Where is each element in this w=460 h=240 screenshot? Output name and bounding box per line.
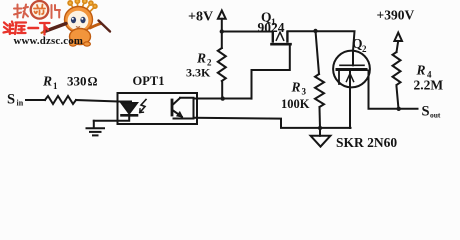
node rail/R3 (313, 29, 317, 33)
wire emitter bus (194, 118, 351, 128)
svg-text:out: out (430, 111, 441, 120)
svg-text:R: R (416, 63, 426, 78)
wire S_in input (26, 99, 45, 101)
LED D1 (122, 103, 138, 114)
svg-text:in: in (17, 99, 24, 108)
svg-text:100K: 100K (281, 97, 310, 111)
resistor R3 (315, 74, 324, 107)
SKR triangle (311, 136, 331, 147)
node R4/S_out (397, 107, 401, 111)
svg-text:www.dzsc.com: www.dzsc.com (14, 35, 84, 47)
svg-text:SKR 2N60: SKR 2N60 (336, 135, 397, 150)
svg-text:330: 330 (67, 74, 87, 89)
phototransistor envelope (174, 98, 194, 119)
svg-text:+8V: +8V (188, 10, 213, 25)
wire R4 bottom (397, 87, 399, 109)
watermark: 维库一下 red text (4, 22, 50, 35)
svg-text:+390V: +390V (377, 8, 415, 23)
mascot big pen (left) (45, 24, 67, 32)
svg-text:Q: Q (352, 36, 363, 51)
wire top rail (222, 31, 355, 51)
svg-text:2.2M: 2.2M (414, 78, 444, 93)
node R2/collector (221, 96, 225, 100)
wire R3 bottom (319, 108, 322, 129)
svg-text:3.3K: 3.3K (186, 66, 211, 80)
Q2 bars (340, 64, 364, 66)
svg-text:R: R (42, 74, 52, 89)
paper background (0, 0, 460, 160)
wire rail to R3 (316, 31, 320, 74)
watermark: mascot head (65, 7, 93, 33)
svg-text:R: R (196, 51, 206, 66)
mascot body (70, 29, 91, 45)
node +8V/R2/rail (220, 29, 224, 33)
resistor R4 (393, 52, 401, 85)
svg-text:Ω: Ω (88, 75, 98, 89)
+390V terminal (394, 33, 402, 41)
MOSFET Q2 circle (333, 51, 370, 88)
resistor R2 (218, 48, 226, 81)
svg-text:9024: 9024 (258, 20, 285, 35)
Q2 gate bar (338, 71, 340, 84)
junction dots (220, 29, 401, 130)
ground (93, 121, 95, 128)
phototransistor base bar (171, 100, 174, 115)
LED cathode wire (94, 117, 129, 121)
watermark: mascot crown (68, 0, 97, 11)
mascot mouth (76, 26, 80, 29)
svg-text:3: 3 (302, 87, 307, 97)
mascot right arm + pen (90, 24, 101, 29)
transistor Q1 (272, 32, 274, 42)
Q2 drain lead (352, 51, 354, 65)
svg-text:OPT1: OPT1 (133, 74, 165, 88)
opto-coupler OPT1 box (118, 93, 198, 124)
phototransistor emitter (173, 111, 182, 117)
svg-text:2: 2 (362, 44, 367, 54)
mascot eyes (71, 17, 76, 23)
svg-text:1: 1 (53, 81, 58, 91)
mascot feet (70, 42, 77, 46)
wire Q1 base (252, 45, 290, 99)
wire +8V down (221, 19, 223, 48)
svg-text:S: S (7, 92, 15, 108)
svg-text:S: S (422, 104, 430, 120)
resistor R1 (45, 96, 76, 104)
wire collector line (194, 98, 252, 100)
wire +390V down (397, 41, 399, 52)
watermark: stamp text 找芯片 (14, 5, 60, 19)
node bus/R3/SKR (318, 126, 322, 130)
LED D1 anode wire (118, 101, 132, 103)
wire R1 to OPT1 (76, 100, 118, 102)
Q2 right lead (369, 71, 418, 109)
SKR terminal stem (319, 128, 321, 136)
phototransistor collector (173, 98, 180, 105)
lightning bolt (140, 100, 146, 113)
Q2 source stem + arrow (349, 71, 351, 128)
svg-text:R: R (291, 80, 301, 95)
watermark: ring around 芯 (31, 1, 49, 19)
+8V terminal (218, 11, 226, 19)
wire R2 to node (221, 83, 223, 99)
